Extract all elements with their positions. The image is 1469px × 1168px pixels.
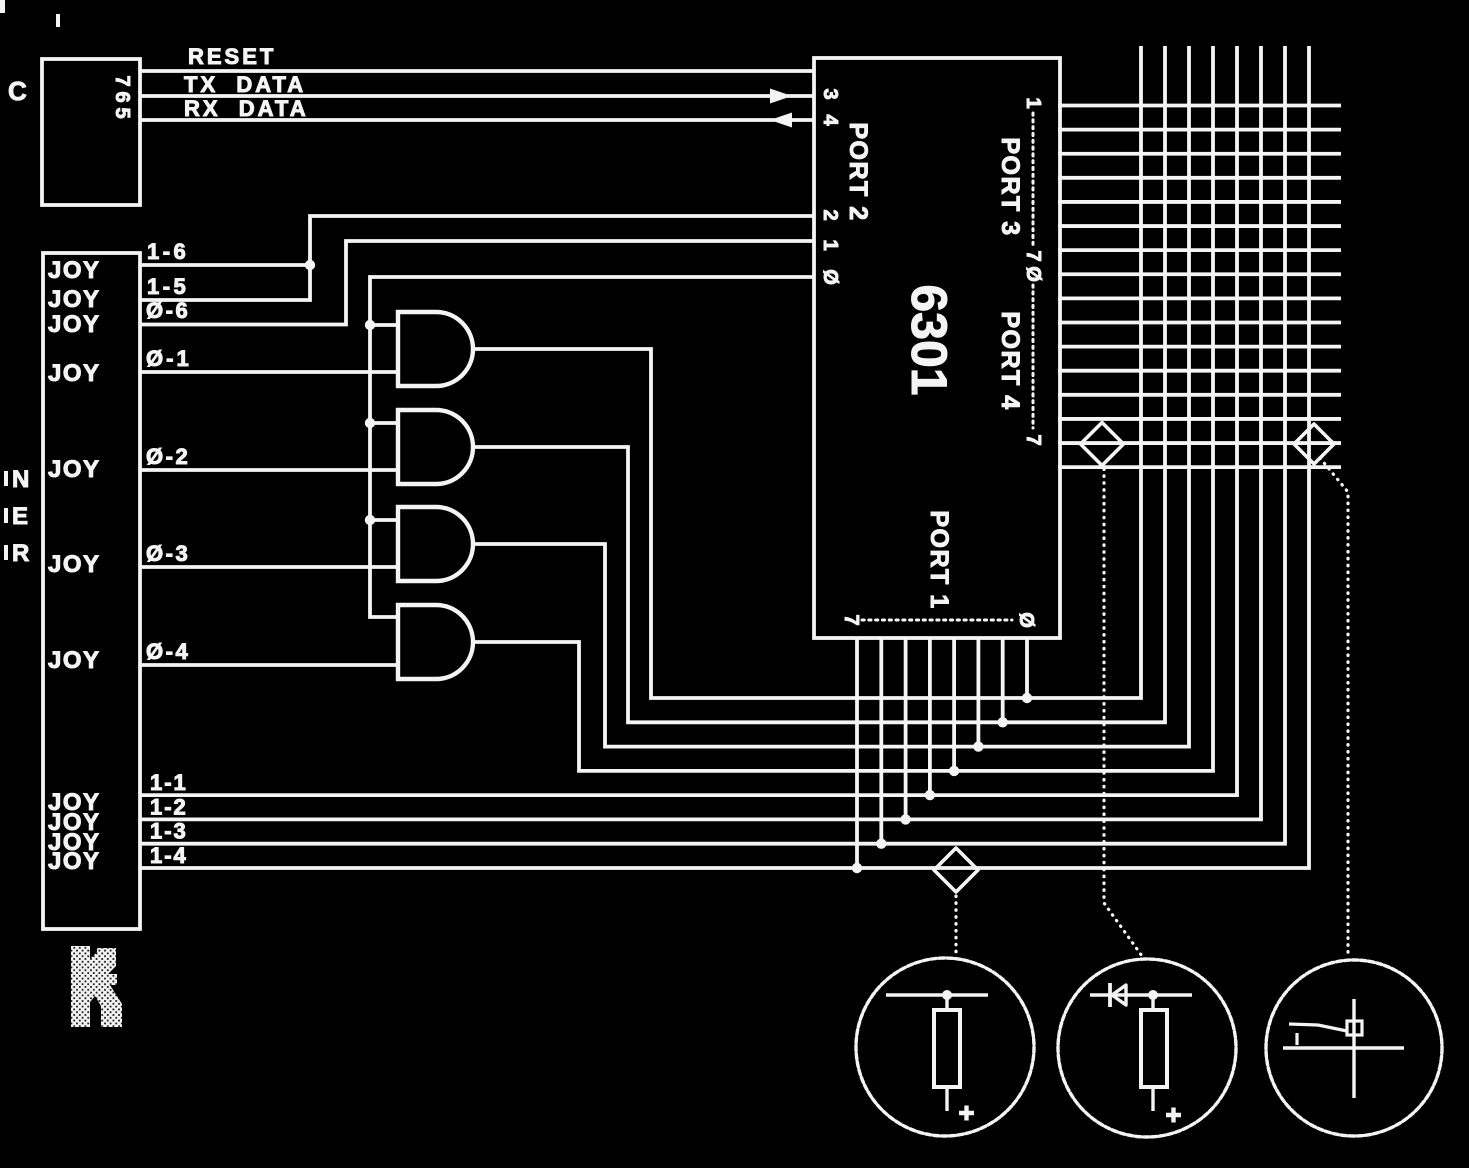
svg-text:Ø-3: Ø-3 — [146, 541, 190, 566]
wire U1 PORT1 pin 1 down — [1001, 638, 1005, 722]
svg-text:Ø-2: Ø-2 — [146, 444, 190, 469]
left edge partial glyph 2 — [4, 508, 8, 523]
label C (cut off at edge) — [8, 76, 27, 106]
svg-text:6301: 6301 — [901, 284, 957, 395]
circle1 row wire — [886, 993, 988, 996]
svg-text:JOY: JOY — [48, 257, 101, 284]
node bus to U2A input — [365, 320, 375, 330]
matrix row wire 8 (U1 right pin) — [1058, 272, 1341, 276]
svg-text:Ø-6: Ø-6 — [146, 298, 190, 323]
svg-text:1-1: 1-1 — [150, 770, 188, 795]
label 1-4 — [150, 843, 188, 868]
wire JOY 1-5 to U1 pin 2 — [140, 216, 814, 300]
matrix row wire 2 (U1 right pin) — [1058, 128, 1341, 132]
U1 PORT 3 pin range dotted line — [1032, 113, 1035, 245]
J2 pin label JOY #4 — [48, 360, 101, 387]
circle3 switch arm — [1289, 1024, 1347, 1031]
wire U1 PORT1 pin 3 down — [952, 638, 956, 771]
logo letter K (halftone) — [71, 946, 122, 1027]
matrix row wire 12 (U1 right pin) — [1058, 369, 1341, 373]
svg-text:JOY: JOY — [48, 647, 101, 674]
circle2 diode D1 triangle — [1112, 985, 1126, 1005]
U1 PORT 1 pin range dotted line — [862, 619, 1012, 622]
circle1 junction node — [942, 990, 952, 1000]
svg-text:7: 7 — [1022, 434, 1044, 445]
IC U1 HD6301 body — [814, 58, 1060, 638]
circle2 row wire — [1090, 993, 1192, 996]
wire U2A output to matrix column 1 — [473, 46, 1141, 698]
circle1 wire resistor to plus — [945, 1087, 948, 1111]
svg-text:TX DATA: TX DATA — [184, 72, 306, 97]
circle3 column wire — [1352, 999, 1355, 1098]
svg-text:C: C — [8, 76, 27, 106]
node PORT1 pin 5 junction — [900, 814, 910, 824]
J2 pin label JOY #2 — [48, 286, 101, 313]
wire JOY 0-2 to U2B — [140, 468, 398, 472]
svg-text:4: 4 — [819, 114, 841, 126]
J2 pin label JOY #9 — [48, 809, 101, 836]
matrix row wire 15 (U1 right pin) — [1058, 441, 1341, 445]
U1 pin 7 label (PORT 4) — [1022, 434, 1044, 445]
svg-text:1-4: 1-4 — [150, 843, 188, 868]
label 1-3 — [150, 819, 188, 844]
U1 label PORT 1 — [925, 510, 953, 609]
svg-text:JOY: JOY — [48, 848, 101, 875]
wire U1 PORT1 pin 7 down — [855, 638, 859, 868]
matrix row wire 1 (U1 right pin) — [1058, 104, 1341, 108]
scan artifact top-left — [0, 0, 5, 13]
svg-text:Ø: Ø — [819, 269, 841, 285]
svg-text:1-2: 1-2 — [150, 794, 188, 819]
matrix row wire 14 (U1 right pin) — [1058, 417, 1341, 421]
svg-text:JOY: JOY — [48, 360, 101, 387]
circle2 junction node — [1148, 990, 1158, 1000]
svg-text:1: 1 — [1022, 97, 1044, 108]
key marker diamond K3 on bottom wire — [934, 848, 978, 892]
matrix row wire 16 (U1 right pin) — [1058, 465, 1341, 469]
svg-text:2: 2 — [819, 209, 841, 220]
svg-text:E: E — [12, 503, 28, 530]
svg-text:JOY: JOY — [48, 311, 101, 338]
U1 pin 7 label (PORT 1) — [840, 614, 862, 625]
matrix row wire 6 (U1 right pin) — [1058, 224, 1341, 228]
pin 5 — [111, 107, 133, 118]
wire JOY 0-1 to U2A — [140, 370, 398, 374]
node bus to U2C input — [365, 515, 375, 525]
node PORT1 pin 0 junction — [1022, 693, 1032, 703]
wire JOY 0-6 to U1 pin 1 — [140, 241, 814, 325]
left edge partial glyph 3 — [4, 545, 8, 560]
label 0-6 — [146, 298, 190, 323]
circle2 plus symbol — [1166, 1108, 1181, 1123]
pin 6 — [111, 91, 133, 102]
svg-text:Ø: Ø — [1022, 266, 1044, 282]
AND gate U2D — [398, 605, 473, 679]
node PORT1 pin 1 junction — [998, 717, 1008, 727]
label 0-4 — [146, 639, 190, 664]
U1 pin 2 label — [819, 209, 841, 220]
label 0-3 — [146, 541, 190, 566]
J2 pin label JOY #10 — [48, 829, 101, 856]
wire JOY 1-3 to matrix column 7 — [140, 46, 1285, 844]
svg-text:PORT 3: PORT 3 — [996, 137, 1024, 236]
U1 label PORT 3 — [996, 137, 1024, 236]
wire bus tee to U2C top input — [370, 518, 398, 522]
left edge letter R (cut text) — [12, 540, 29, 567]
node junction 1-6 / 1-5 — [305, 260, 315, 270]
U1 pin 0 label — [819, 269, 841, 285]
matrix row wire 9 (U1 right pin) — [1058, 296, 1341, 300]
wire U2B output to matrix column 2 — [473, 46, 1165, 722]
U1 label PORT 4 — [996, 311, 1024, 410]
circle1 wire resistor top — [945, 995, 948, 1010]
wire JOY 1-4 to matrix column 8 — [140, 46, 1309, 868]
U1 pin 4 label — [819, 114, 841, 126]
svg-text:Ø-4: Ø-4 — [146, 639, 190, 664]
label 1-1 — [150, 770, 188, 795]
wire U2D output to matrix column 4 — [473, 46, 1213, 771]
U1 label 6301 — [901, 284, 957, 395]
label 1-6 — [147, 239, 189, 264]
detail circle 2 outline — [1058, 959, 1236, 1137]
matrix row wire 3 (U1 right pin) — [1058, 152, 1341, 156]
matrix row wire 13 (U1 right pin) — [1058, 393, 1341, 397]
detail circle 1 outline — [856, 958, 1034, 1136]
J2 pin label JOY #5 — [48, 456, 101, 483]
key marker diamond K1 on row 15 — [1081, 423, 1124, 466]
wire U1 PORT1 pin 6 down — [879, 638, 883, 844]
label TX DATA — [184, 72, 306, 97]
J2 pin label JOY #7 — [48, 647, 101, 674]
circle2 wire resistor top — [1151, 995, 1154, 1010]
wire U1 PORT1 pin 2 down — [977, 638, 981, 747]
J2 pin label JOY #6 — [48, 551, 101, 578]
U1 PORT 4 pin range dotted line — [1032, 285, 1035, 428]
svg-text:6: 6 — [111, 91, 133, 102]
node PORT1 pin 4 junction — [925, 790, 935, 800]
U1 pin 1 label — [819, 239, 841, 250]
pin 7 — [111, 75, 133, 86]
wire bus tee to U2B top input — [370, 421, 398, 425]
node PORT1 pin 6 junction — [876, 839, 886, 849]
circle3 switch contact tick — [1295, 1033, 1298, 1045]
wire U2C output to matrix column 3 — [473, 46, 1189, 747]
svg-text:R: R — [12, 540, 29, 567]
J2 pin label JOY #8 — [48, 789, 101, 816]
circle2 resistor R2 — [1141, 1010, 1167, 1087]
svg-text:Ø: Ø — [1015, 612, 1037, 628]
AND gate U2C — [398, 507, 473, 581]
wire RESET — [140, 69, 814, 73]
left edge letter N (cut text) — [12, 466, 29, 493]
svg-text:Ø-1: Ø-1 — [146, 346, 192, 371]
label 1-5 — [147, 274, 189, 299]
svg-text:5: 5 — [111, 107, 133, 118]
key marker diamond K2 on row 15 col 8 — [1294, 424, 1334, 464]
wire JOY 1-2 to matrix column 6 — [140, 46, 1261, 819]
svg-text:JOY: JOY — [48, 456, 101, 483]
AND gate U2A — [398, 312, 473, 386]
J2 pin label JOY #1 — [48, 257, 101, 284]
svg-text:RX DATA: RX DATA — [184, 96, 309, 121]
dotted callout line from K3 to detail circle 1 — [954, 896, 957, 952]
svg-text:PORT 4: PORT 4 — [996, 311, 1024, 410]
label RX DATA — [184, 96, 309, 121]
svg-text:RESET: RESET — [188, 44, 276, 69]
wire U1 pin 0 to AND gate bus — [370, 277, 814, 617]
arrow TX into U1 — [770, 89, 792, 104]
circle3 row wire — [1283, 1046, 1404, 1049]
svg-text:7: 7 — [111, 75, 133, 86]
label RESET — [188, 44, 276, 69]
connector J1 (CPU side) — [42, 59, 140, 205]
svg-text:N: N — [12, 466, 29, 493]
label 0-2 — [146, 444, 190, 469]
U1 label PORT 2 — [844, 122, 872, 221]
svg-text:1-5: 1-5 — [147, 274, 189, 299]
scan artifact near C box — [56, 14, 60, 27]
svg-text:JOY: JOY — [48, 286, 101, 313]
matrix row wire 4 (U1 right pin) — [1058, 176, 1341, 180]
node PORT1 pin 2 junction — [973, 741, 983, 751]
wire bus tee to U2A top input — [370, 323, 398, 327]
svg-text:7: 7 — [840, 614, 862, 625]
J2 pin label JOY #3 — [48, 311, 101, 338]
left edge letter E (cut text) — [12, 503, 28, 530]
label 0-1 — [146, 346, 192, 371]
dotted callout line from K1 to detail circle 2 — [1104, 469, 1142, 956]
node PORT1 pin 7 junction — [852, 863, 862, 873]
U1 pin 0 label (PORT 1) — [1015, 612, 1037, 628]
circle2 wire resistor to plus — [1151, 1087, 1154, 1111]
node PORT1 pin 3 junction — [949, 766, 959, 776]
arrow RX out of U1 — [770, 113, 792, 128]
svg-text:1-3: 1-3 — [150, 819, 188, 844]
circle1 plus symbol — [959, 1106, 974, 1121]
wire U1 PORT1 pin 0 down — [1025, 638, 1029, 698]
U1 pin 3 label — [819, 88, 841, 99]
dotted callout line from K2 to detail circle 3 — [1320, 458, 1348, 953]
wire U1 PORT1 pin 4 down — [928, 638, 932, 795]
matrix row wire 5 (U1 right pin) — [1058, 200, 1341, 204]
detail circle 3 outline — [1266, 960, 1442, 1136]
left edge partial glyph 1 — [4, 471, 8, 486]
wire TX DATA — [140, 94, 814, 98]
svg-text:1: 1 — [819, 239, 841, 250]
circle1 resistor R1 — [934, 1010, 960, 1087]
svg-text:1-6: 1-6 — [147, 239, 189, 264]
U1 pin 0 label (PORT 4) — [1022, 266, 1044, 282]
wire JOY 0-3 to U2C — [140, 565, 398, 569]
wire RX DATA — [140, 118, 814, 122]
label 1-2 — [150, 794, 188, 819]
wire JOY 0-4 to U2D — [140, 663, 398, 667]
svg-text:PORT 2: PORT 2 — [844, 122, 872, 221]
circle3 switch plunger square — [1347, 1021, 1362, 1035]
svg-text:PORT 1: PORT 1 — [925, 510, 953, 609]
matrix row wire 11 (U1 right pin) — [1058, 345, 1341, 349]
wire U1 PORT1 pin 5 down — [904, 638, 908, 819]
svg-text:JOY: JOY — [48, 551, 101, 578]
svg-text:3: 3 — [819, 88, 841, 99]
node bus to U2B input — [365, 418, 375, 428]
connector J2 joystick box — [43, 253, 140, 929]
svg-text:7: 7 — [1022, 250, 1044, 261]
wire JOY 1-6 — [140, 263, 310, 267]
circle2 diode D1 cathode bar — [1108, 983, 1112, 1007]
matrix row wire 10 (U1 right pin) — [1058, 321, 1341, 325]
U1 pin 1 of PORT 3 label — [1022, 97, 1044, 108]
AND gate U2B — [398, 410, 473, 484]
matrix row wire 7 (U1 right pin) — [1058, 248, 1341, 252]
wire JOY 1-1 to matrix column 5 — [140, 46, 1237, 795]
J2 pin label JOY #11 — [48, 848, 101, 875]
U1 pin 7 label (PORT 3) — [1022, 250, 1044, 261]
